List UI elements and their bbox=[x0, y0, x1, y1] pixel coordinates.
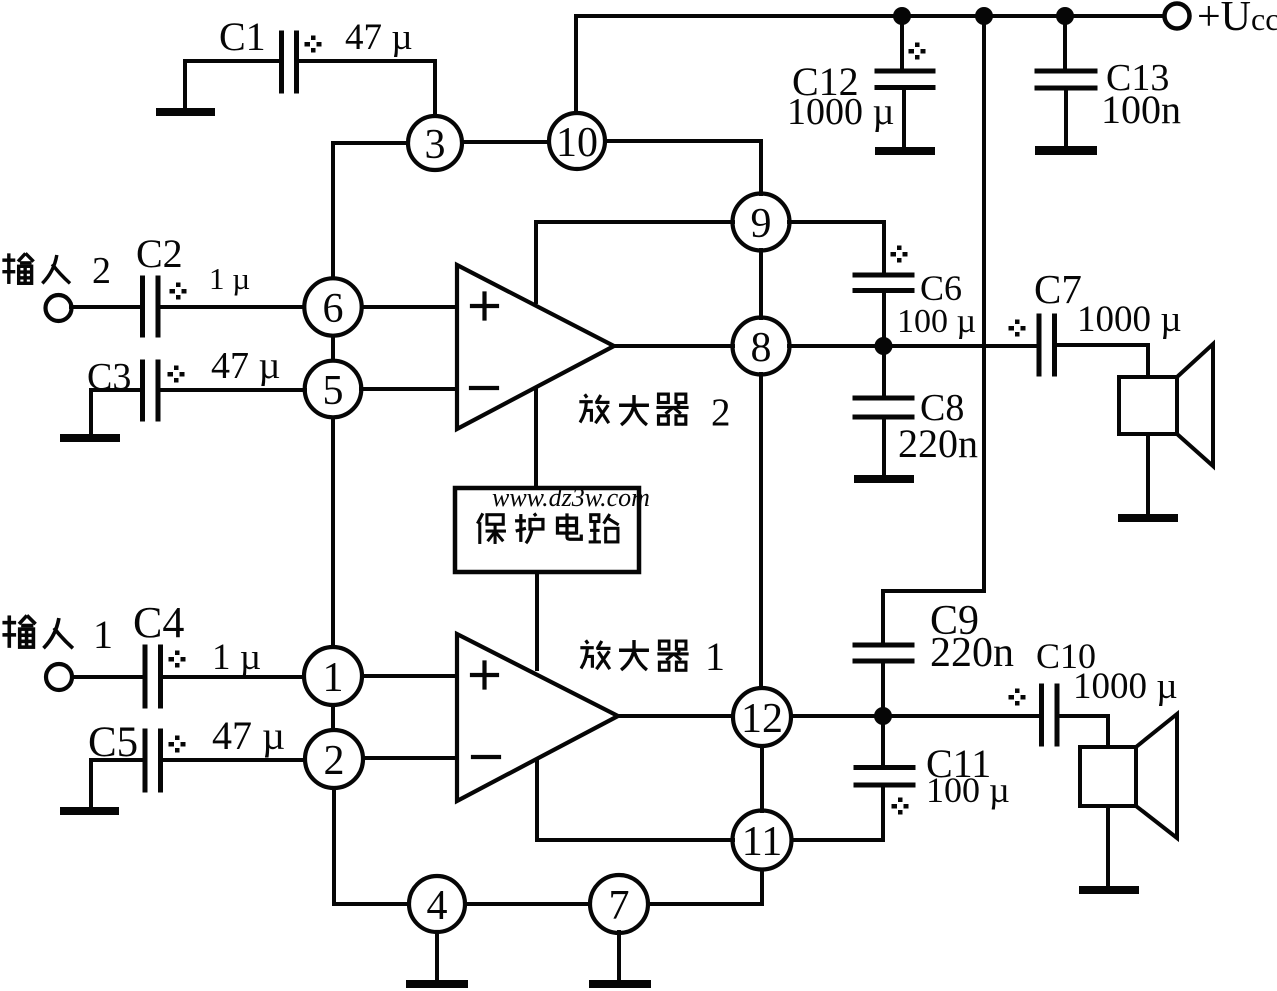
svg-text:+U: +U bbox=[1197, 0, 1251, 40]
wire node to C8 top bbox=[882, 346, 886, 396]
wire pin9 left to amp2 top edge bbox=[536, 222, 733, 302]
wire pin7 to ground bbox=[617, 932, 621, 980]
wire C9 bottom to node bbox=[881, 663, 885, 716]
polarity C6 bbox=[891, 246, 908, 263]
wire input2 to C2 bbox=[71, 305, 140, 309]
wire C8 bottom to ground bbox=[882, 419, 886, 475]
wire C1 right to pin3 bbox=[299, 61, 435, 116]
polarity C2 bbox=[170, 283, 187, 300]
protection circuit box bbox=[455, 488, 639, 572]
svg-text:1: 1 bbox=[323, 655, 344, 701]
svg-text:C1: C1 bbox=[219, 14, 266, 59]
wire C5 to pin2 bbox=[163, 758, 305, 762]
op-amp U2 (amplifier 2) bbox=[457, 265, 614, 429]
wire amp2 bottom edge to protection box bbox=[534, 388, 538, 488]
svg-text:C5: C5 bbox=[88, 719, 138, 766]
capacitor C8 plates bbox=[855, 398, 912, 417]
svg-text:1 µ: 1 µ bbox=[209, 261, 250, 296]
svg-text:C4: C4 bbox=[133, 598, 184, 647]
capacitor C10 plates bbox=[1042, 686, 1058, 744]
svg-text:47 µ: 47 µ bbox=[345, 17, 413, 58]
svg-text:8: 8 bbox=[751, 325, 772, 371]
junction node on rail above C13 bbox=[1056, 7, 1074, 25]
polarity C12 bbox=[909, 43, 926, 60]
capacitor C2 plates bbox=[143, 278, 159, 335]
svg-text:9: 9 bbox=[751, 201, 772, 247]
capacitor C7 plates bbox=[1039, 316, 1055, 374]
speaker LS1 bbox=[1119, 377, 1177, 434]
wire speaker2 to ground bbox=[1106, 806, 1110, 886]
polarity C7 bbox=[1009, 320, 1026, 337]
wire C6 bottom to node bbox=[882, 292, 886, 346]
wire amp1 bottom edge to pin11 bbox=[537, 760, 733, 840]
svg-text:C2: C2 bbox=[136, 231, 183, 276]
svg-text:1: 1 bbox=[93, 612, 113, 657]
svg-text:www.dz3w.com: www.dz3w.com bbox=[492, 483, 650, 512]
svg-text:3: 3 bbox=[425, 122, 446, 168]
svg-text:C7: C7 bbox=[1034, 266, 1082, 312]
svg-text:2: 2 bbox=[324, 738, 345, 784]
wire column pin3 to pin6 bbox=[331, 143, 335, 278]
pin 4 bbox=[409, 876, 465, 932]
pin 3 bbox=[408, 116, 462, 170]
wire pin6 to amp2 plus bbox=[362, 305, 457, 309]
wire C12 bottom to ground bbox=[902, 88, 906, 147]
wire C7 right to speaker1 bbox=[1056, 345, 1148, 377]
junction node at pin12/C9/C11 bbox=[874, 707, 892, 725]
capacitor C5 plates bbox=[145, 731, 161, 790]
wire pin3 left stub bbox=[333, 141, 408, 145]
pin 8 bbox=[733, 318, 790, 375]
ground at C1 bbox=[156, 108, 215, 116]
ground at pin 7 bbox=[589, 980, 651, 988]
capacitor C4 plates bbox=[145, 647, 161, 706]
wire Ucc top rail bbox=[576, 14, 1164, 18]
ground at speaker LS2 bbox=[1079, 886, 1139, 894]
Chinese text amplifier2 放大器 bbox=[579, 394, 609, 423]
ground at C3 bbox=[60, 434, 120, 442]
input terminal 2 bbox=[46, 295, 72, 321]
svg-text:1000 µ: 1000 µ bbox=[1077, 299, 1182, 340]
Chinese text amplifier1 放大器 bbox=[580, 640, 610, 669]
wire pin4 to pin7 bbox=[465, 902, 590, 906]
svg-text:7: 7 bbox=[609, 883, 630, 929]
wire C11 bottom left to pin11 bbox=[792, 787, 883, 840]
Chinese text protection circuit 保护电路 bbox=[477, 513, 506, 544]
op-amp U1 plus input mark bbox=[472, 663, 497, 688]
polarity C10 bbox=[1009, 689, 1026, 706]
wire C13 top bbox=[1063, 16, 1067, 71]
wire pin8 right to C7 bbox=[789, 344, 1037, 348]
svg-text:10: 10 bbox=[556, 120, 598, 166]
pin 7 bbox=[590, 875, 648, 933]
op-amp U2 minus input mark bbox=[471, 386, 497, 390]
wire C3 left to ground bbox=[91, 390, 140, 434]
pin 2 bbox=[305, 730, 363, 788]
wire Ucc long vertical to C9 bbox=[883, 16, 984, 643]
polarity C1 bbox=[305, 36, 322, 53]
wire pin9 right down to C6 bbox=[789, 222, 884, 273]
wire C5 left to ground bbox=[91, 760, 143, 807]
capacitor C13 plates bbox=[1037, 71, 1095, 88]
pin 11 bbox=[733, 811, 792, 870]
capacitor C12 plates bbox=[877, 71, 933, 88]
svg-text:1000 µ: 1000 µ bbox=[787, 91, 894, 133]
junction node at pin8/C6/C8 bbox=[875, 337, 893, 355]
op-amp U1 minus input mark bbox=[473, 755, 499, 759]
capacitor C11 plates bbox=[856, 768, 913, 786]
ground at C8 bbox=[854, 475, 914, 483]
ground at C5 bbox=[60, 807, 119, 815]
ground at pin 4 bbox=[406, 980, 468, 988]
polarity C3 bbox=[168, 366, 185, 383]
wire pin1 to amp1 plus bbox=[362, 674, 457, 678]
svg-text:47 µ: 47 µ bbox=[212, 713, 285, 758]
wire C10 right to speaker2 bbox=[1058, 716, 1108, 747]
polarity C5 bbox=[169, 736, 186, 753]
op-amp U1 (amplifier 1) bbox=[457, 634, 618, 801]
wire pin2 to amp1 minus bbox=[363, 756, 457, 760]
ground at C12 bbox=[875, 147, 935, 155]
wire pin11 down left to pin7 bbox=[648, 870, 762, 904]
wire pin1 to pin2 bbox=[331, 705, 335, 730]
wire pin10 right down to pin9 bbox=[605, 141, 761, 194]
svg-text:cc: cc bbox=[1251, 1, 1277, 37]
ground at C13 bbox=[1035, 146, 1097, 155]
svg-text:12: 12 bbox=[741, 696, 783, 742]
wire pin5 to pin1 bbox=[331, 418, 335, 647]
svg-text:220n: 220n bbox=[930, 630, 1014, 676]
wire C2 to pin6 bbox=[162, 305, 304, 309]
wire C13 bottom to ground bbox=[1064, 88, 1068, 146]
input terminal 1 bbox=[46, 664, 72, 690]
wire pin9 to pin8 bbox=[759, 250, 763, 318]
capacitor C3 plates bbox=[143, 362, 159, 419]
wire pin12 right to C10 bbox=[791, 714, 1040, 718]
wire pin5 to amp2 minus bbox=[361, 387, 457, 391]
wire amp2 output to pin8 bbox=[614, 344, 733, 348]
wire input1 to C4 bbox=[72, 675, 143, 679]
+Ucc terminal bbox=[1165, 4, 1190, 29]
junction node on rail above long vertical bbox=[975, 7, 993, 25]
svg-text:47 µ: 47 µ bbox=[211, 345, 280, 387]
svg-text:4: 4 bbox=[427, 883, 448, 929]
svg-text:100n: 100n bbox=[1101, 87, 1181, 132]
pin 1 bbox=[304, 647, 362, 705]
wire pin4 to ground bbox=[435, 932, 439, 980]
svg-text:100 µ: 100 µ bbox=[926, 770, 1010, 810]
op-amp U2 plus input mark bbox=[472, 294, 497, 319]
svg-text:2: 2 bbox=[92, 250, 111, 292]
polarity C4 bbox=[169, 651, 186, 668]
svg-text:1000 µ: 1000 µ bbox=[1073, 666, 1178, 707]
svg-text:220n: 220n bbox=[898, 421, 978, 466]
wire speaker1 to ground bbox=[1146, 434, 1150, 514]
pin 5 bbox=[305, 361, 362, 418]
wire amp1 output to pin12 bbox=[618, 714, 733, 718]
pin 10 bbox=[549, 113, 605, 169]
ground at speaker LS1 bbox=[1118, 514, 1178, 522]
wire pin6 to pin5 bbox=[331, 336, 335, 360]
junction node on rail above C12 bbox=[893, 7, 911, 25]
wire pin3 to pin10 bbox=[462, 140, 549, 144]
wire riser to pin 10 bbox=[574, 16, 578, 113]
svg-text:C3: C3 bbox=[87, 356, 131, 398]
wire C4 to pin1 bbox=[163, 675, 304, 679]
capacitor C1 plates bbox=[282, 33, 297, 91]
svg-text:C6: C6 bbox=[920, 268, 962, 308]
wire C12 top bbox=[900, 16, 904, 71]
Chinese text input2 输入 bbox=[2, 253, 33, 284]
speaker LS2 bbox=[1080, 747, 1136, 806]
svg-text:5: 5 bbox=[323, 368, 344, 414]
capacitor C9 plates bbox=[855, 645, 912, 661]
polarity C11 bbox=[892, 798, 909, 815]
svg-text:100 µ: 100 µ bbox=[897, 303, 976, 340]
wire node to C11 top bbox=[881, 716, 885, 766]
svg-text:1 µ: 1 µ bbox=[212, 637, 261, 678]
wire C1 left to ground bbox=[185, 61, 279, 109]
pin 6 bbox=[304, 278, 361, 335]
wire C3 to pin5 bbox=[162, 388, 305, 392]
wire pin12 to pin11 bbox=[760, 746, 764, 811]
svg-text:11: 11 bbox=[742, 819, 782, 865]
Chinese text input1 输入 bbox=[2, 615, 35, 647]
wire pin8 down to pin12 bbox=[759, 374, 763, 688]
pin 12 bbox=[733, 688, 791, 746]
wire pin2 down to pin4 bbox=[334, 788, 409, 904]
pin 9 bbox=[733, 194, 790, 251]
capacitor C6 plates bbox=[855, 275, 912, 291]
svg-text:2: 2 bbox=[711, 391, 731, 434]
svg-text:1: 1 bbox=[705, 634, 725, 679]
wire protection box to amp1 top edge bbox=[535, 572, 539, 669]
svg-text:6: 6 bbox=[323, 286, 344, 332]
